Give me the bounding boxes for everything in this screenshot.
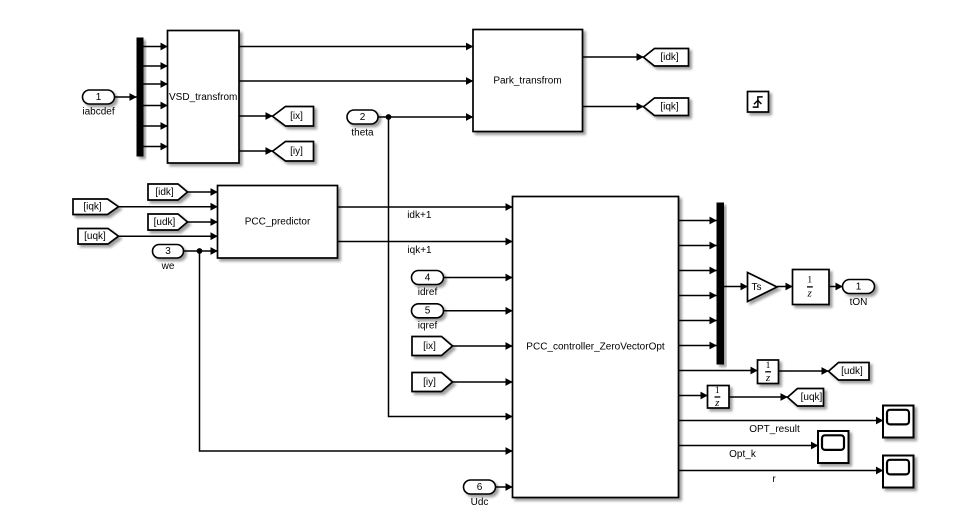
unit delay 2 [758,360,779,384]
svg-text:1: 1 [96,92,102,103]
wire Park out1 to goto [idk] [583,56,644,58]
input port 6 [464,480,496,494]
wire controller out11 r to scope3 [679,470,884,472]
subsystem PCC_predictor [218,186,338,259]
wire controller out8 to unit delay 3 [679,395,708,397]
output port 1 [843,280,875,294]
svg-text:[iy]: [iy] [290,146,303,157]
subsystem VSD_transfrom [168,31,240,164]
wire demux to VSD in2 [144,65,168,67]
from [iy] mid [412,373,453,392]
svg-text:idk+1: idk+1 [407,210,432,221]
svg-text:iabcdef: iabcdef [82,107,114,118]
wire theta to Park in3 [378,116,473,118]
wire from [idk] to predictor in1 [188,191,218,193]
svg-text:OPT_result: OPT_result [749,424,800,435]
wire Park out2 to goto [iqk] [583,106,644,108]
svg-text:[ix]: [ix] [423,341,436,352]
wire controller out1 to mux [679,220,717,222]
svg-text:[ix]: [ix] [290,111,303,122]
wire controller out6 to mux [679,345,717,347]
wire from [iqk] to predictor in2 [119,206,218,208]
wire controller out3 to mux [679,270,717,272]
svg-text:[iy]: [iy] [423,377,436,388]
wire demux to VSD in1 [144,46,168,48]
svg-text:3: 3 [165,246,171,257]
from [ix] mid [412,337,453,356]
svg-text:[idk]: [idk] [155,187,174,198]
subsystem PCC_controller_ZeroVectorOpt [513,197,679,498]
gain Ts [748,273,778,302]
wire Udc to controller in9 [496,486,513,488]
scope Scope1 [883,406,914,438]
wire VSD out3 to goto [ix] [239,115,273,117]
wire Ts to unit delay 1 [777,286,793,288]
wire VSD out2 to Park in2 [239,80,473,82]
unit delay 1 [793,270,830,305]
goto [iy] [273,142,314,162]
svg-text:5: 5 [425,306,431,317]
svg-text:1: 1 [766,361,771,371]
svg-text:[idk]: [idk] [660,52,679,63]
svg-text:[uqk]: [uqk] [84,231,106,242]
input port 1 [83,90,115,104]
svg-text:z: z [765,372,771,384]
wire unit delay 2 to goto [udk] [779,370,829,372]
wire we branch to controller in8 [200,251,513,451]
svg-text:[iqk]: [iqk] [660,102,679,113]
svg-text:tON: tON [850,297,868,308]
wire controller out5 to mux [679,320,717,322]
svg-text:idref: idref [418,287,438,298]
from [iqk] [73,199,119,215]
svg-text:1: 1 [856,281,862,292]
trigger block [748,92,769,113]
wire controller out4 to mux [679,295,717,297]
svg-text:[uqk]: [uqk] [801,392,823,403]
wire demux to VSD in5 [144,125,168,127]
subsystem Park_transfrom [473,30,583,132]
wire mux to gain Ts [724,286,748,288]
wire predictor out1 idk+1 to controller in1 [338,206,513,208]
wire demux to VSD in6 [144,146,168,148]
svg-text:PCC_predictor: PCC_predictor [245,217,311,228]
svg-text:Ts: Ts [752,282,762,293]
svg-text:Opt_k: Opt_k [729,449,757,460]
wire theta branch to controller in7 [389,117,513,417]
wire controller out7 to unit delay 2 [679,370,758,372]
from [udk] [148,214,188,230]
mux bar [717,203,725,365]
goto [ix] [273,107,314,127]
wire predictor out2 iqk+1 to controller in2 [338,241,513,243]
svg-text:2: 2 [360,112,366,123]
svg-text:Udc: Udc [471,497,489,508]
wire from [ix] to controller in5 [453,345,513,347]
wire port1 to demux [115,96,137,98]
svg-text:Park_transfrom: Park_transfrom [493,76,561,87]
svg-text:6: 6 [477,482,483,493]
wire idref to controller in3 [444,277,513,279]
input port 2 [347,110,378,124]
demux bar [137,38,144,157]
wire controller out10 Opt_k to scope2 [679,445,819,447]
svg-text:PCC_controller_ZeroVectorOpt: PCC_controller_ZeroVectorOpt [526,342,665,353]
wire VSD out1 to Park in1 [239,46,473,48]
unit delay 3 [708,386,730,409]
svg-text:4: 4 [425,272,431,283]
input port 3 [153,245,184,259]
svg-text:VSD_transfrom: VSD_transfrom [169,92,237,103]
input port 5 [412,304,444,318]
scope Scope2 [818,431,849,463]
wire unit delay 1 to output port tON [829,286,843,288]
wire controller out2 to mux [679,245,717,247]
from [uqk] [78,229,119,245]
wire from [udk] to predictor in3 [188,221,218,223]
svg-text:[iqk]: [iqk] [83,202,102,213]
svg-text:[udk]: [udk] [154,217,176,228]
svg-text:z: z [714,397,720,409]
input port 4 [412,271,444,285]
scope Scope3 [883,456,914,488]
wire from [uqk] to predictor in4 [119,235,218,237]
svg-text:we: we [161,261,175,272]
svg-text:iqk+1: iqk+1 [407,245,432,256]
goto [uqk] [788,389,824,407]
wire VSD out4 to goto [iy] [239,150,273,152]
wire demux to VSD in4 [144,105,168,107]
goto [iqk] [644,98,689,116]
wire we to predictor in5 [184,250,218,252]
node we junction [197,248,203,254]
svg-text:theta: theta [351,128,374,139]
svg-text:iqref: iqref [418,320,438,331]
wire controller out9 OPT_result to scope1 [679,420,884,422]
wire demux to VSD in3 [144,83,168,85]
svg-text:1: 1 [807,276,812,286]
wire iqref to controller in4 [444,310,513,312]
wire unit delay 3 to goto [uqk] [729,396,788,398]
svg-text:1: 1 [715,386,720,396]
from [idk] [148,184,188,200]
svg-text:[udk]: [udk] [841,366,863,377]
node theta junction [386,114,392,120]
goto [idk] [644,49,689,67]
svg-text:z: z [807,288,813,300]
wire from [iy] to controller in6 [453,381,513,383]
goto [udk] [829,363,870,381]
